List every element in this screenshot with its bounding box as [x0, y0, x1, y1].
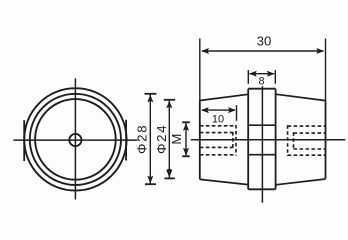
bottom-left taper	[200, 179, 248, 184]
dimension 8	[248, 70, 275, 84]
top-right taper	[276, 94, 326, 100]
left face	[199, 101, 201, 180]
band bottom edge	[248, 188, 275, 190]
right flat	[125, 120, 127, 161]
dimension M	[182, 122, 190, 156]
dimension phi-28	[145, 94, 157, 184]
horizontal centerline (right view)	[191, 139, 345, 141]
top-left taper	[200, 94, 248, 100]
band left edge	[247, 89, 249, 190]
band line upper	[248, 124, 275, 126]
horizontal centerline (left view)	[14, 139, 138, 141]
middle circle	[30, 94, 121, 185]
right face	[325, 101, 327, 179]
vertical centerline (right view)	[261, 86, 263, 202]
svg-text:M: M	[169, 134, 184, 145]
svg-text:30: 30	[257, 34, 272, 49]
svg-text:Φ28: Φ28	[135, 124, 150, 154]
bottom-right taper	[276, 179, 326, 185]
band top edge	[248, 88, 275, 90]
center hole circle	[69, 134, 81, 146]
svg-text:10: 10	[212, 113, 224, 125]
svg-text:8: 8	[258, 75, 264, 87]
inner circle	[35, 99, 116, 180]
outer circle	[24, 88, 126, 190]
vertical centerline (left view)	[74, 78, 76, 199]
left flat	[23, 120, 25, 161]
svg-text:Φ24: Φ24	[154, 124, 169, 154]
band line lower	[248, 154, 275, 156]
dimension 10	[202, 105, 237, 121]
left tapped hole hidden outline	[200, 125, 236, 156]
dimension phi-24	[164, 100, 175, 179]
band right edge	[275, 89, 277, 190]
dimension 30	[200, 39, 326, 101]
right tapped hole hidden outline	[288, 125, 326, 156]
